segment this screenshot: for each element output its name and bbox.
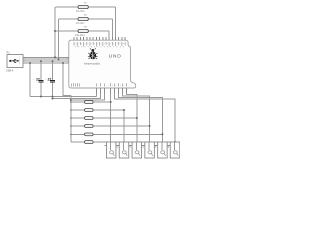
switch S4 [143,142,157,158]
row 3 wire [71,117,137,119]
wire right vertical to pin 12 [108,31,110,37]
pin stubs P1 [19,57,26,65]
switch S3 [130,142,144,158]
svg-text:6: 6 [168,146,170,149]
wire left vertical A [54,7,56,57]
wire U10 pin to S1 [110,94,112,143]
wire U10 pin A drop [53,94,101,99]
IC U10 board outline [69,40,136,88]
wire USB pin3 to U10 [26,60,66,62]
switch S5 [156,142,170,158]
svg-text:10 ohm: 10 ohm [76,10,84,13]
wire U10 pin B drop [71,94,105,101]
connector P1 (USB) [6,51,23,73]
svg-text:2: 2 [117,146,119,149]
wire row2 to S2 [123,110,125,142]
U10 bottom pins [97,88,127,94]
svg-text:USB-A: USB-A [6,69,14,72]
wire U10 pin to S5 [119,94,163,143]
wire R3 horizontal [55,30,109,32]
resistor RA5 [85,133,94,136]
wire bus feed from U10 left pin4 [63,63,71,95]
USB icon [9,59,19,62]
wire U10 pin to S6 [115,94,176,143]
ground rail [30,96,97,98]
wire right vertical to pin 14 [115,7,117,37]
capacitor C2 [45,61,55,96]
wire U10 pin to S4 [123,94,150,143]
svg-text:R1: R1 [84,3,88,5]
resistor R2 [76,15,88,25]
switch S2 [117,142,131,158]
junction dots [29,30,176,143]
resistor R3 [75,27,88,37]
svg-text:5: 5 [155,146,157,149]
keyestudio logo [88,48,98,59]
svg-text:4: 4 [19,63,20,65]
wire R2 horizontal [59,18,113,20]
keyestudio text [84,61,100,65]
svg-text:R3: R3 [84,27,88,29]
svg-text:c: c [34,79,35,81]
switch S6 [168,142,179,158]
resistor RA6 [85,141,94,144]
U10 top pins [74,37,125,40]
U10 bottom pin labels [72,83,129,87]
svg-text:P1: P1 [7,51,11,55]
svg-text:4: 4 [142,146,144,149]
wire U10 pin GND drop [96,94,98,97]
wire USB pin4 to ground rail [26,62,66,64]
resistor R1 [76,3,88,13]
capacitor C1 [34,61,44,96]
svg-text:c: c [45,79,46,81]
wire ground drop left [29,63,31,97]
wire left bus vertical [70,95,72,142]
resistor RA4 [85,125,94,128]
switch S1 [105,142,119,158]
U10 top pin labels [74,42,126,47]
svg-text:keyestudio: keyestudio [84,61,100,65]
wire left vertical B [58,19,60,59]
row 2 wire [71,109,124,111]
bus branch dots [70,101,72,135]
svg-text:10k ohm: 10k ohm [75,34,85,37]
resistor RA3 [85,117,94,120]
wire USB pin1 to U10 [26,56,66,58]
wire U10 pin to S3 [127,94,137,143]
wire R1 horizontal [56,6,116,8]
wire right vertical to pin 13 [111,19,113,37]
svg-text:R2: R2 [84,15,88,17]
U10 left pins [66,57,69,63]
row 6 wire [71,141,175,143]
svg-text:10 ohm: 10 ohm [76,22,84,25]
row 1 wire [71,101,111,103]
svg-text:UNO: UNO [109,54,122,60]
row 5 wire [71,133,163,135]
resistor RA1 [85,101,94,104]
resistor RA2 [85,109,94,112]
svg-text:3: 3 [129,146,131,149]
wire USB pin2 to U10 [26,58,66,60]
row 4 wire [71,125,150,127]
